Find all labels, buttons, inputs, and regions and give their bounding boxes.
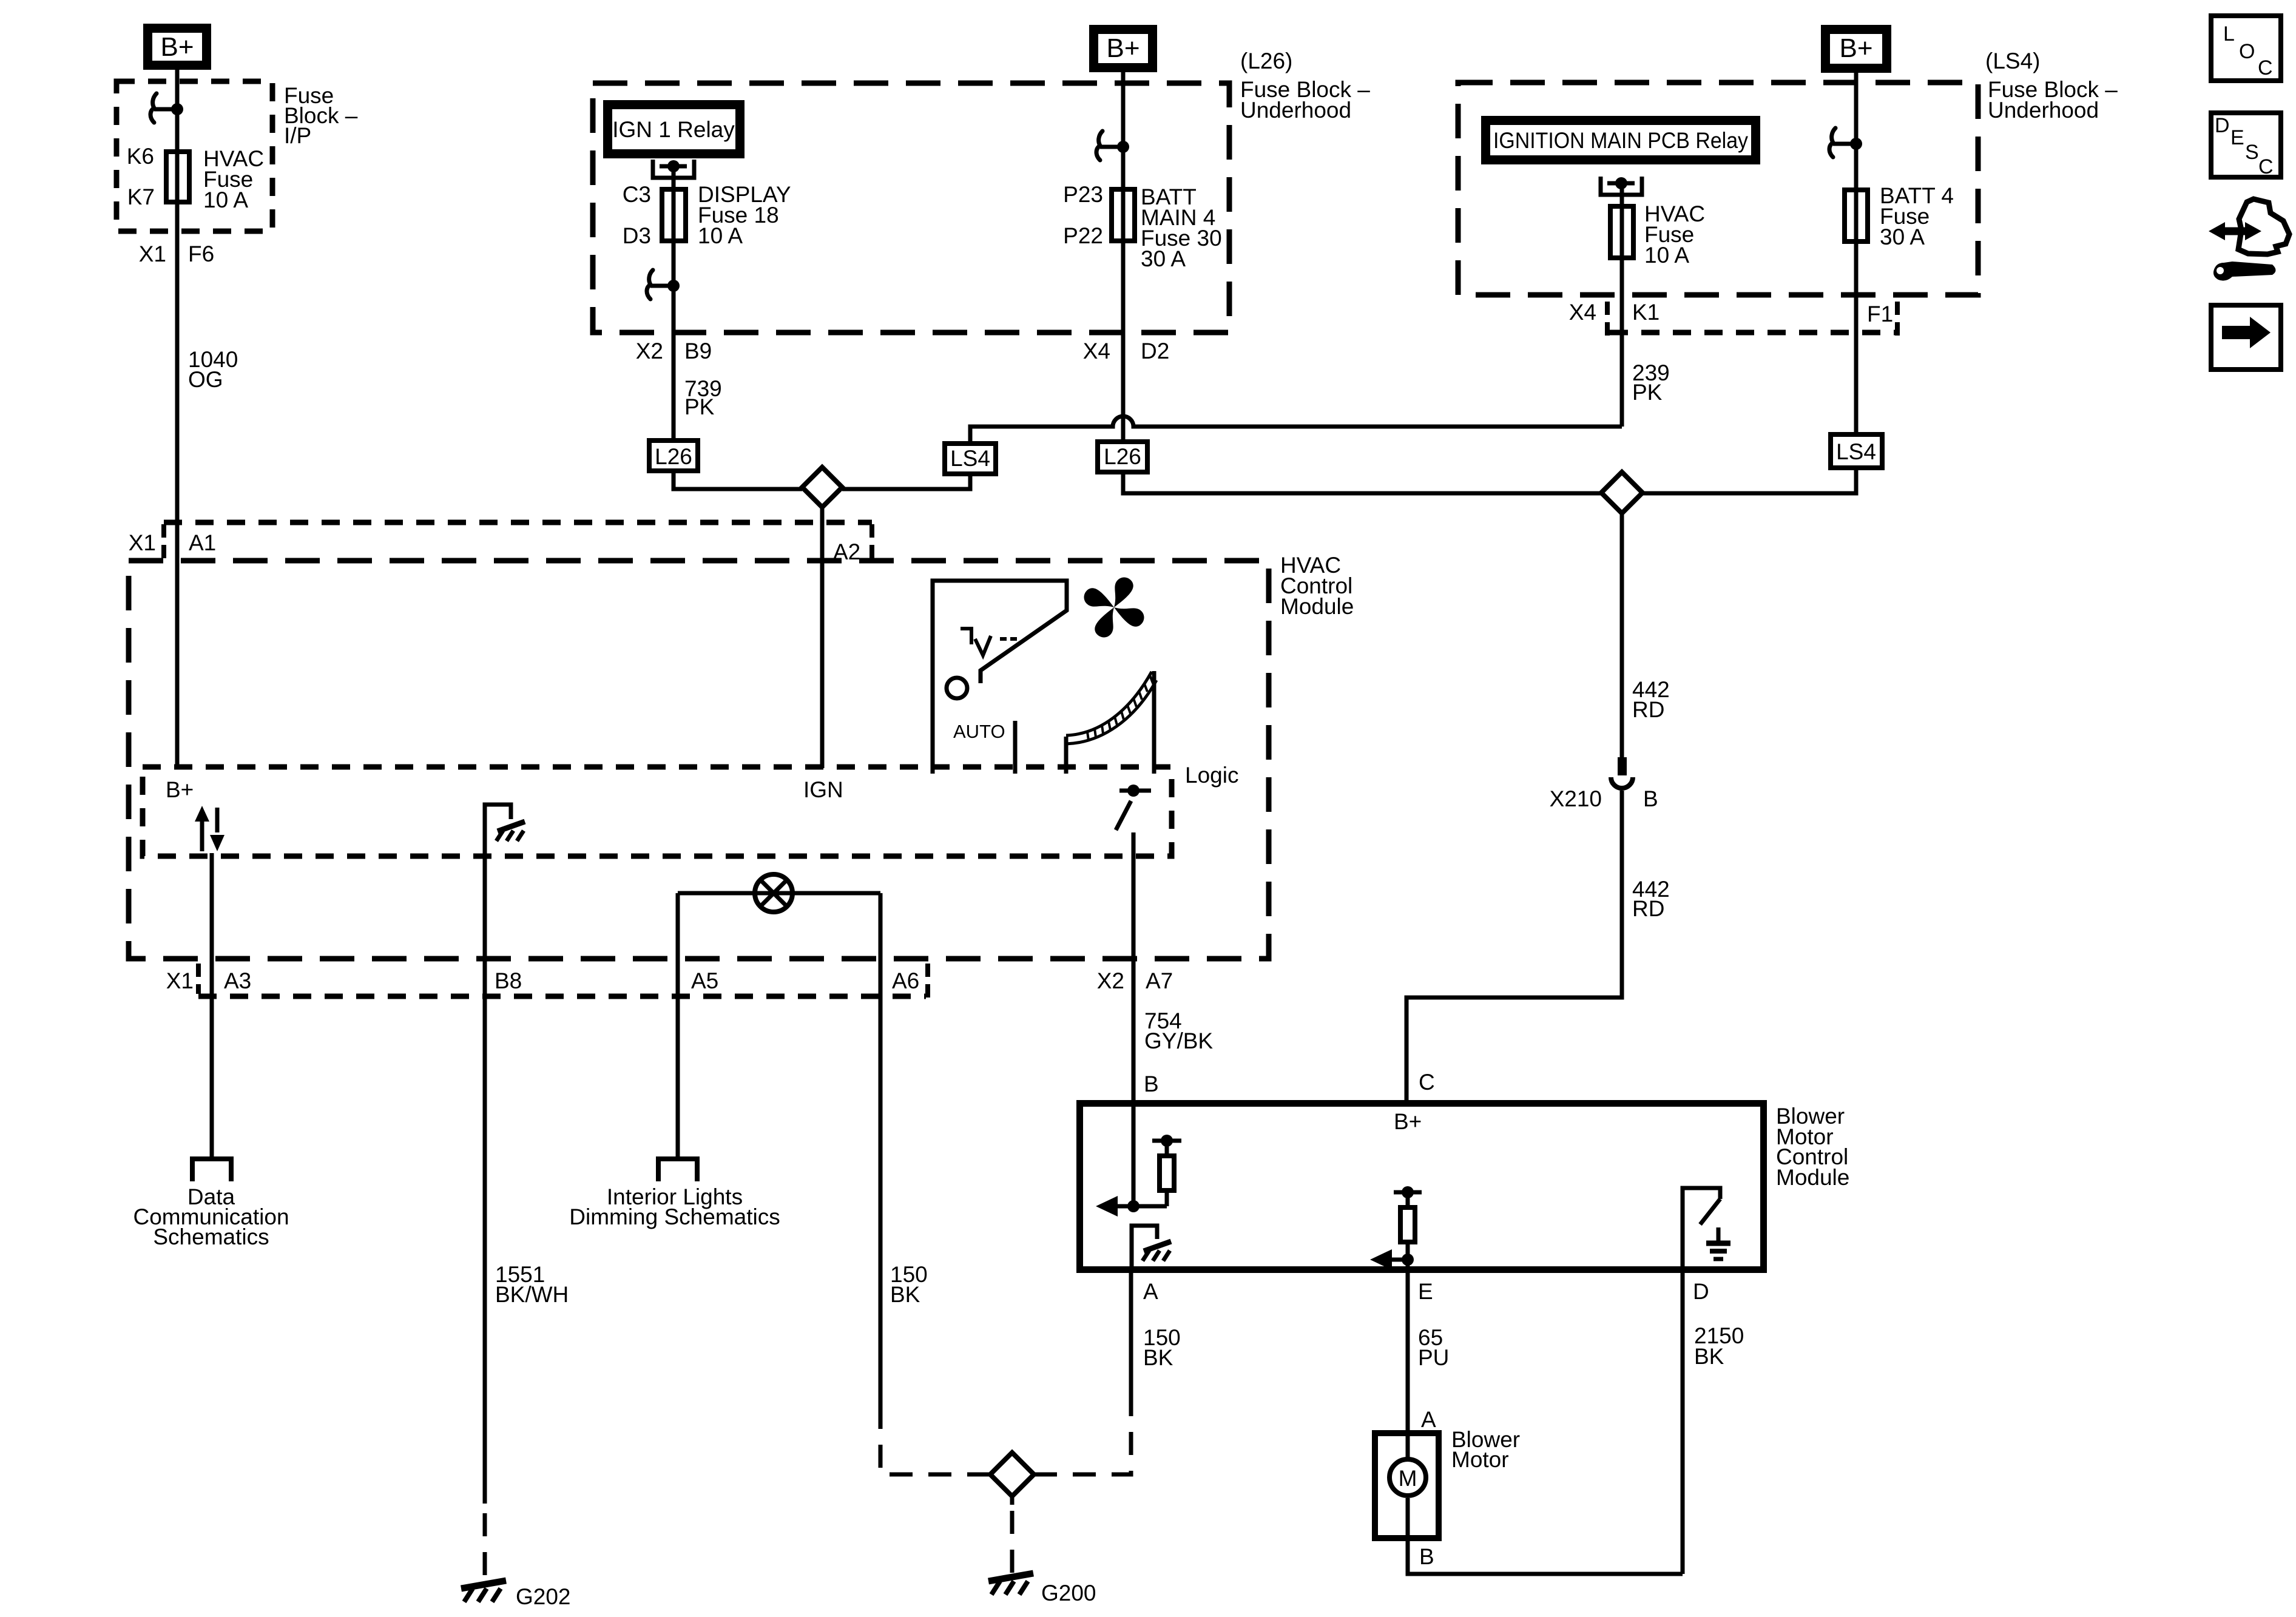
svg-text:X2: X2 [636,339,663,363]
svg-text:BK/WH: BK/WH [495,1282,569,1307]
HVAC Control Module dashed box [129,561,1269,959]
in-line connector LS4 mid [945,444,996,474]
svg-text:B: B [1419,1544,1434,1569]
Fuse Block Underhood (L26) dashed box [593,83,1229,333]
svg-text:A: A [1143,1279,1158,1304]
backlight lamp and wire A5-A6 [678,891,880,896]
svg-text:X1: X1 [129,530,156,555]
svg-text:C3: C3 [623,182,651,207]
connector row X1/A3/B8/A5/A6 [198,994,926,999]
svg-text:K6: K6 [127,144,154,169]
svg-text:IGNITION MAIN PCB Relay: IGNITION MAIN PCB Relay [1493,128,1748,153]
svg-text:BK: BK [1694,1344,1724,1369]
data flow arrows up/down [200,818,204,851]
internal driver left: wire B into module [1132,1100,1136,1206]
svg-text:B: B [1144,1072,1159,1096]
wire A3 to data communication schematics [210,853,214,1159]
svg-text:X4: X4 [1083,339,1110,363]
svg-text:Dimming Schematics: Dimming Schematics [569,1204,780,1229]
svg-text:Schematics: Schematics [153,1224,269,1249]
wire 150 BK A6 to splice C [879,893,883,1406]
in-line connector LS4 right [1831,434,1882,468]
fuse BATT MAIN 4 Fuse 30 30A P23/P22 [1112,189,1135,241]
svg-text:F6: F6 [188,241,214,266]
Fuse Block Underhood (LS4) dashed box [1458,83,1978,295]
svg-text:OG: OG [188,367,223,392]
svg-text:G200: G200 [1041,1581,1096,1605]
wire 739 PK from relay through DISPLAY fuse to L26 connector [672,166,676,438]
internal resistor middle with wiper bar [1394,1190,1422,1195]
svg-text:A2: A2 [833,539,860,564]
B+ battery feed symbol 2 [1094,30,1153,68]
svg-text:Underhood: Underhood [1240,98,1351,123]
splice diamond A [802,467,842,507]
svg-text:Module: Module [1776,1165,1849,1190]
wire 239 PK from relay through HVAC fuse down to junction [1620,186,1624,427]
svg-text:D: D [1693,1279,1709,1304]
fan icon [1070,563,1158,651]
svg-text:D: D [2215,114,2230,137]
svg-text:I/P: I/P [284,123,311,148]
svg-text:C: C [2258,155,2274,178]
svg-text:B+: B+ [1106,33,1140,63]
svg-text:X1: X1 [166,968,194,993]
svg-text:B+: B+ [1394,1109,1422,1134]
wire from L26 second to splice diamond B and LS4 right [1123,474,1601,493]
svg-text:10 A: 10 A [203,187,248,212]
svg-text:B+: B+ [1839,33,1872,63]
svg-text:X4: X4 [1569,300,1596,325]
splice diamond B [1601,472,1643,513]
svg-text:K1: K1 [1632,300,1660,325]
svg-text:A6: A6 [892,968,919,993]
in-line connector L26 [649,441,698,471]
fuse clip (BATT MAIN 4) [1096,131,1129,160]
svg-text:10 A: 10 A [698,223,743,248]
IGN 1 Relay output terminal [653,160,694,178]
svg-text:LS4: LS4 [1836,439,1876,464]
svg-text:K7: K7 [127,184,155,209]
svg-text:C: C [2258,56,2273,79]
svg-text:A: A [1421,1407,1436,1432]
sidebar service icon: wrench [2213,262,2276,281]
wire from B+ through BATT MAIN 4 fuse to L26 connector [1121,72,1126,439]
wire from splice C to ground G200 [1010,1496,1015,1505]
svg-text:IGN: IGN [803,777,843,802]
svg-text:B+: B+ [166,777,194,802]
B+ battery feed symbol 3 [1826,30,1887,69]
svg-text:B+: B+ [160,32,194,62]
sidebar LOC box [2211,16,2281,81]
in-line connector L26 second [1098,442,1147,472]
off-page bracket data comm [192,1159,231,1181]
B+ battery feed symbol 1 [148,29,207,66]
svg-text:A3: A3 [224,968,251,993]
svg-text:RD: RD [1632,697,1664,722]
connector X4/K1/F1 row [1610,330,1896,336]
earth ground symbol [1717,1227,1721,1243]
connector X210 pin B [1618,757,1627,775]
sidebar DESC box [2211,113,2281,177]
svg-text:D2: D2 [1141,339,1169,363]
svg-text:O: O [2239,40,2255,63]
svg-text:X2: X2 [1097,968,1124,993]
fuse DISPLAY Fuse 18 10A C3/D3 [662,189,686,241]
sidebar service icon: double arrow [2218,228,2252,235]
svg-text:(LS4): (LS4) [1985,49,2040,73]
svg-text:A1: A1 [189,530,216,555]
IGNITION MAIN PCB Relay label box [1486,121,1756,160]
svg-text:IGN 1 Relay: IGN 1 Relay [612,117,735,142]
internal resistor left with wiper bar [1152,1139,1181,1143]
svg-text:RD: RD [1632,896,1664,921]
sidebar service icon: hand outline [2238,199,2289,254]
svg-text:A5: A5 [691,968,718,993]
wire 1551 BK/WH B8 to G202 [483,853,487,1504]
svg-text:L26: L26 [1104,444,1141,469]
svg-text:F1: F1 [1867,302,1893,326]
fuse HVAC Fuse 10A (underhood) [1610,206,1633,258]
svg-text:S: S [2245,141,2259,164]
wire 2150 BK pin D [1681,1273,1685,1574]
svg-text:G202: G202 [516,1584,571,1609]
svg-text:B8: B8 [495,968,522,993]
connector X1/A1/A2 row [164,520,872,525]
ground G202 [461,1581,506,1602]
svg-text:L26: L26 [655,444,692,469]
wire 442 RD from splice to X210 [1620,513,1624,758]
splice diamond C [990,1453,1034,1496]
ground G200 [988,1573,1033,1595]
svg-text:Logic: Logic [1185,763,1238,788]
fuse HVAC 10A K6/K7 [166,152,189,202]
Fuse Block I/P dashed box [116,81,272,231]
off-page bracket interior lights [658,1159,697,1181]
wire 442 RD from X210 to blower module pin C [1406,791,1622,1100]
junction node with output arrow left (middle) [1402,1254,1414,1266]
IGN 1 Relay label box [608,105,740,154]
wire 65 PU pin E to blower motor [1406,1260,1410,1430]
Blower Motor Control Module box [1080,1104,1764,1270]
wire 150 BK pin A [1129,1273,1133,1406]
svg-text:10 A: 10 A [1644,243,1689,268]
svg-text:BK: BK [1143,1345,1173,1370]
internal ground of HVAC module [485,805,511,853]
svg-text:30 A: 30 A [1141,246,1186,271]
fuse BATT 4 Fuse 30A [1845,190,1868,241]
svg-text:C: C [1419,1070,1435,1095]
fuse clip (BATT 4) [1829,128,1862,157]
svg-text:Underhood: Underhood [1988,98,2099,123]
internal logic strip dashed [143,767,1172,856]
fuse clip below D3 [647,270,680,299]
svg-text:PK: PK [1632,380,1663,405]
display panel icon [933,581,1067,774]
svg-text:A7: A7 [1146,968,1173,993]
svg-text:PK: PK [684,394,715,419]
svg-text:PU: PU [1418,1345,1449,1370]
svg-text:AUTO: AUTO [953,721,1005,742]
wire from B+ through BATT 4 fuse to LS4 connector [1854,73,1859,432]
svg-text:B9: B9 [684,339,712,363]
svg-text:B: B [1643,786,1658,811]
wire from motor B to module pin D [1408,1541,1683,1574]
wire IGN feed from splice A to logic strip [820,507,825,768]
internal switch to earth ground at pin D [1683,1188,1720,1273]
internal chassis ground at pin A [1132,1226,1157,1273]
logic output switch [1127,785,1140,797]
wire 1040 OG from B+ to HVAC control module pin A1 [175,70,180,768]
junction node with output arrow left [1127,1200,1140,1212]
svg-text:Module: Module [1280,594,1354,619]
svg-text:X1: X1 [139,241,166,266]
svg-text:D3: D3 [623,223,651,248]
svg-text:X210: X210 [1550,786,1602,811]
svg-text:M: M [1399,1466,1417,1491]
wire from LS4 mid top hopping over B+ wire to 239 PK corner [970,416,1622,441]
svg-text:P23: P23 [1063,182,1103,207]
sidebar arrow box [2211,305,2281,370]
svg-text:GY/BK: GY/BK [1144,1028,1213,1053]
IGNITION MAIN PCB Relay output terminal [1601,177,1642,195]
fuse clip (Fuse Block I/P) [150,93,183,123]
wire 754 GY/BK from switch to blower module pin B [1132,832,1136,1100]
svg-text:E: E [1418,1279,1433,1304]
svg-text:E: E [2230,126,2244,149]
Blower Motor box [1375,1433,1439,1538]
svg-text:BK: BK [890,1282,920,1307]
svg-text:LS4: LS4 [950,446,990,471]
svg-text:P22: P22 [1063,223,1103,248]
svg-text:Motor: Motor [1451,1447,1509,1472]
svg-text:L: L [2223,22,2235,46]
motor M symbol [1406,1430,1410,1457]
temperature dial icon [1064,737,1069,774]
wire from L26 first to splice diamond and LS4 connector [674,473,802,489]
svg-text:30 A: 30 A [1880,224,1925,249]
wire A5 to interior lights dimming [676,893,680,1159]
svg-text:(L26): (L26) [1240,49,1292,73]
